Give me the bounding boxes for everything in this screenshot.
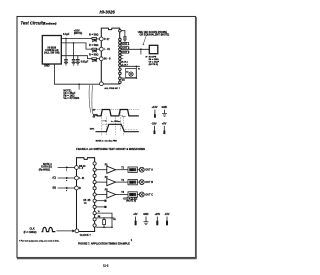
svg-text:(A): (A): [122, 78, 125, 81]
svg-text:GND: GND: [143, 213, 149, 216]
clock waveform symbol: [42, 227, 56, 231]
node dot bottom rail: [78, 83, 80, 85]
wire pin to probe network top: [121, 65, 140, 67]
svg-text:LB: LB: [130, 181, 134, 184]
svg-text:t₅₅ 300ns: t₅₅ 300ns: [111, 120, 121, 123]
switch output waveform: [96, 124, 139, 131]
IC U2 body: [77, 158, 95, 232]
socket pin 3 (left): [99, 57, 103, 61]
U2 pin D (left 1): [75, 166, 79, 170]
resistor R3 50ohm: [92, 58, 97, 60]
svg-text:I - 4: I - 4: [79, 167, 84, 170]
dashed vertical t2: [106, 117, 108, 136]
node dot on rail B at C2: [73, 42, 75, 44]
svg-text:P-1†: P-1†: [104, 37, 110, 41]
svg-text:(1%): (1%): [92, 60, 97, 63]
supply stub -15V: [153, 126, 155, 131]
wire junction stub down: [140, 49, 142, 54]
svg-text:+15V: +15V: [155, 213, 161, 216]
socket right pins: [119, 29, 122, 83]
ground for C1: [64, 62, 68, 65]
svg-text:(1%): (1%): [92, 50, 97, 53]
svg-text:0.1µF: 0.1µF: [63, 33, 70, 36]
svg-text:HI-3026: HI-3026: [100, 9, 116, 14]
load wire bottom: [96, 226, 112, 228]
U2 pin CLK (bottom left): [75, 229, 79, 233]
svg-text:FIGURE 6. AC SWITCHING TEST CI: FIGURE 6. AC SWITCHING TEST CIRCUIT & WA…: [76, 148, 145, 151]
wire R1 to pin: [97, 38, 100, 40]
svg-text:OUT 3: OUT 3: [122, 51, 130, 54]
wire box to jack: [137, 169, 139, 171]
svg-text:Test Circuits: Test Circuits: [21, 21, 46, 26]
ground for C4: [123, 39, 127, 41]
svg-text:R = 50Ω: R = 50Ω: [89, 34, 98, 37]
test socket XU1 body: [101, 28, 119, 84]
svg-text:CLOCK †: CLOCK †: [80, 234, 92, 237]
wire box to jack: [137, 181, 139, 183]
svg-text:OUT 1: OUT 1: [122, 43, 130, 46]
svg-text:(NOTE): (NOTE): [74, 32, 82, 35]
output jack J4: [139, 192, 144, 197]
op-amp buffer U4: [107, 179, 116, 186]
svg-text:LB: LB: [130, 194, 134, 197]
svg-text:(Fᵢ = 1MHz): (Fᵢ = 1MHz): [24, 231, 37, 234]
U2 pin B (left 3): [75, 186, 79, 190]
supply stub GND: [164, 110, 166, 114]
node dot on rail A at C1: [65, 38, 67, 40]
svg-text:R = 50Ω: R = 50Ω: [89, 44, 98, 47]
wire R2 to pin: [97, 48, 100, 50]
dashed vertical t2b: [115, 117, 117, 136]
RL leads: [103, 218, 105, 220]
bottom supply stub +5V: [135, 217, 137, 222]
DUT box U1: [42, 36, 61, 65]
wire buffer to line box: [116, 194, 128, 196]
bottom supply stub GND: [145, 217, 147, 222]
capacitor C4: [123, 37, 126, 38]
svg-text:Vа = 3V RMS: Vа = 3V RMS: [63, 96, 79, 100]
resistor R2 50ohm: [92, 48, 97, 50]
capacitor C3 lead: [77, 56, 79, 60]
dashed baseline right: [125, 129, 138, 131]
line driver box: [128, 179, 137, 184]
load network wire top: [96, 213, 112, 227]
svg-text:(C): (C): [53, 176, 57, 179]
capacitor C2 lead: [73, 43, 75, 59]
termination stub 1: [96, 200, 104, 202]
label box pin NC row 2: [122, 47, 129, 50]
svg-text:I - 41: I - 41: [104, 47, 111, 51]
ground for C3: [76, 62, 80, 65]
wire clock to U2: [57, 230, 75, 232]
svg-text:(1%): (1%): [92, 40, 97, 43]
U2 pin C (left 2): [75, 176, 79, 180]
ground symbol: [162, 114, 167, 117]
socket pin 14 (bottom left): [100, 82, 104, 86]
dashed level line top: [95, 109, 139, 111]
wire buffer to line box: [116, 181, 128, 183]
wire C analog in: [61, 56, 92, 59]
wire box to jack: [137, 194, 139, 196]
logic input waveform: [97, 110, 139, 116]
frame right shadow edge: [195, 17, 197, 258]
svg-text:0.01µF: 0.01µF: [81, 61, 89, 64]
svg-text:t₆₆₆: t₆₆₆: [122, 115, 126, 118]
tON arrow and label: [102, 120, 106, 121]
svg-text:+5V: +5V: [133, 213, 138, 216]
svg-text:GND: GND: [44, 65, 50, 68]
label box pin NC row 1: [122, 42, 129, 45]
dashed vertical t1: [101, 111, 103, 136]
node dot load right: [111, 226, 113, 228]
svg-text:FIGURE 7. APPLICATION TIMING E: FIGURE 7. APPLICATION TIMING EXAMPLE: [78, 243, 130, 246]
dashed vertical t4: [122, 117, 124, 135]
svg-text:(Continued): (Continued): [44, 22, 57, 25]
leader arrow from note: [143, 36, 146, 45]
line driver box: [128, 192, 137, 197]
svg-text:IN - 8: IN - 8: [104, 57, 111, 61]
output jack J3: [139, 180, 144, 185]
svg-text:OUT C: OUT C: [145, 194, 153, 197]
svg-text:(ALL SW ON): (ALL SW ON): [44, 51, 59, 54]
svg-text:† For test purposes only, see: † For test purposes only, see note 4 inf…: [19, 240, 60, 243]
capacitor C3: [76, 60, 80, 63]
capacitor C1 lead: [65, 38, 67, 59]
socket pin 1 (left): [99, 37, 103, 41]
wire pin to bypass capacitor C4: [121, 31, 125, 37]
dashed output level line: [102, 123, 108, 125]
svg-text:OUT A: OUT A: [145, 169, 153, 172]
probe model box: [126, 68, 137, 77]
svg-text:Cᳯ: Cᳯ: [113, 218, 116, 221]
page frame: [17, 17, 196, 258]
wire input 3 with arrow: [58, 187, 75, 189]
svg-text:Rᳯ: Rᳯ: [98, 215, 101, 218]
frame bottom shadow edge: [17, 257, 197, 259]
wire A +15V rail: [61, 37, 92, 39]
svg-text:OUT B: OUT B: [145, 181, 153, 184]
wire U2 pin to buffer C: [96, 194, 107, 196]
bottom supply stub -15V: [166, 217, 168, 222]
svg-text:(Rᳯ 600Ω): (Rᳯ 600Ω): [39, 169, 50, 172]
svg-text:-15V: -15V: [151, 122, 157, 125]
bottom ground symbol: [144, 222, 149, 225]
svg-text:+15V: +15V: [152, 106, 158, 109]
node dot mid-left: [103, 217, 105, 219]
wire R3 to pin: [97, 58, 100, 60]
svg-text:OR EQUIVALENT (NOTE): OR EQUIVALENT (NOTE): [140, 33, 170, 36]
pin stub wires: [121, 55, 123, 65]
svg-text:11-2: 11-2: [103, 264, 109, 268]
svg-text:(NOTE 6): (NOTE 6): [126, 201, 136, 203]
ground for C2: [72, 62, 76, 65]
wire pin to scope: [121, 48, 149, 50]
svg-text:+5V: +5V: [162, 122, 167, 125]
leader curve 1: [89, 85, 91, 112]
scope box: [149, 45, 158, 53]
node dot mid-right: [111, 217, 113, 219]
wire U2 pin to buffer B: [96, 181, 107, 183]
wire stub below bottom rail: [78, 85, 80, 90]
wire: DUT bottom to socket pin 14: [54, 64, 99, 84]
node dot probe top: [136, 66, 138, 68]
probe network right side wire: [135, 66, 137, 78]
probe jack J1: [129, 72, 133, 76]
load resistor RL: [103, 220, 106, 225]
socket pin 2 (left): [99, 47, 103, 51]
svg-text:2B: 2B: [88, 200, 91, 202]
capacitor C2: [72, 60, 76, 63]
svg-text:-15V: -15V: [164, 213, 169, 216]
svg-text:Vₒ: Vₒ: [98, 211, 100, 213]
svg-text:50%: 50%: [90, 128, 94, 130]
wire buffer to line box: [116, 169, 128, 171]
svg-text:1B: 1B: [83, 200, 86, 202]
termination stub 2: [96, 206, 104, 208]
svg-text:J-10.1: J-10.1: [122, 61, 129, 63]
svg-text:LB: LB: [130, 169, 134, 172]
probe parameters pointer: [146, 56, 148, 58]
line driver box: [128, 167, 137, 172]
node junction scope wire: [140, 48, 142, 50]
wire input 1 with arrow: [58, 167, 75, 169]
output jack J2: [139, 167, 144, 172]
wire U2 pin to buffer A: [96, 169, 107, 171]
leader curve 2: [91, 85, 94, 114]
svg-text:NOTE: tᵢ = tƒ ≤ 5ns PRR: NOTE: tᵢ = tƒ ≤ 5ns PRR: [96, 140, 118, 143]
dashed vertical t3: [119, 111, 121, 131]
svg-text:(NOTE 3): (NOTE 3): [149, 64, 159, 66]
node dot load: [103, 226, 105, 228]
resistor R1 50ohm: [92, 38, 97, 40]
capacitor CL stub label: [112, 217, 115, 219]
bottom supply stub +15V: [156, 217, 158, 222]
svg-text:ALL PINS NC †: ALL PINS NC †: [104, 87, 120, 90]
label box pin NC row 3: [122, 51, 129, 54]
node dot probe bottom: [136, 77, 138, 79]
svg-text:(B): (B): [53, 186, 57, 189]
load network wire mid: [96, 217, 112, 219]
wire input 2 with arrow: [58, 177, 75, 179]
op-amp buffer U3: [107, 166, 116, 173]
svg-text:I - 41: I - 41: [79, 177, 85, 180]
U2 right pins: [93, 162, 96, 227]
supply stub +5V: [163, 126, 165, 131]
supply stub +15V: [154, 110, 156, 115]
probe network bottom wire: [121, 77, 136, 79]
op-amp buffer U5: [107, 191, 116, 198]
capacitor C1: [64, 60, 68, 63]
wire B -15V rail: [61, 43, 92, 49]
svg-text:R = 50Ω: R = 50Ω: [89, 54, 98, 57]
svg-text:GND: GND: [162, 106, 168, 109]
DUT text: [44, 47, 59, 55]
